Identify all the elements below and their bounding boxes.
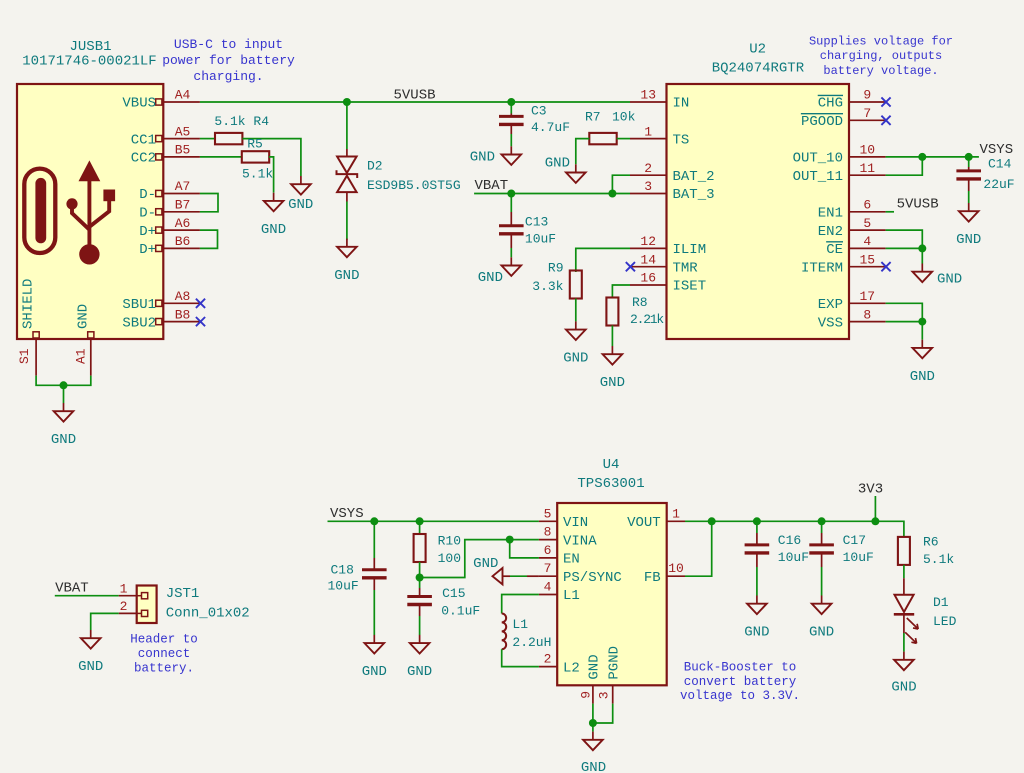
svg-text:4: 4 — [863, 234, 871, 249]
svg-text:VOUT: VOUT — [627, 515, 661, 531]
wire C18 to ground — [373, 578, 375, 590]
svg-text:6: 6 — [544, 543, 552, 558]
pin 11 OUT_11 of U2 — [849, 174, 886, 176]
pin 1 VOUT of U4 — [667, 520, 685, 522]
diode D2 ESD9B5.0ST5G — [346, 149, 348, 157]
pin 5 VIN of U4 — [539, 520, 557, 522]
svg-text:TS: TS — [673, 132, 690, 148]
pin 4 L1 of U4 — [539, 594, 557, 596]
wire D2 to ground — [346, 202, 348, 240]
svg-text:A4: A4 — [175, 88, 191, 103]
svg-text:3.3k: 3.3k — [532, 279, 563, 294]
svg-text:5.1k: 5.1k — [242, 166, 273, 181]
svg-text:GND: GND — [78, 659, 103, 675]
svg-text:PGOOD: PGOOD — [801, 114, 843, 130]
svg-text:D-: D- — [139, 187, 156, 203]
svg-text:CC2: CC2 — [131, 151, 156, 167]
wire C15 to ground — [419, 605, 421, 617]
svg-text:SHIELD: SHIELD — [21, 279, 37, 329]
svg-text:5: 5 — [544, 506, 552, 521]
svg-text:GND: GND — [473, 556, 498, 572]
inductor L1 2.2uH — [502, 614, 507, 650]
svg-text:2.21k: 2.21k — [630, 312, 664, 327]
svg-text:CE: CE — [826, 242, 843, 258]
no-connect CHG — [881, 97, 890, 106]
wire R10 to junction — [419, 562, 421, 578]
svg-text:10uF: 10uF — [778, 550, 809, 565]
ground symbol at JST1 — [90, 630, 92, 638]
pin 2 BAT_2 of U2 — [630, 174, 667, 176]
USB trident icon — [79, 160, 101, 181]
pin 7 PS/SYNC of U4 — [539, 575, 557, 577]
svg-text:ILIM: ILIM — [673, 242, 707, 258]
svg-text:LED: LED — [933, 614, 957, 629]
ground symbol at C14 — [968, 203, 970, 211]
IC U2 body — [667, 84, 850, 339]
wire D1 to ground — [903, 614, 905, 633]
svg-text:L1: L1 — [512, 617, 528, 632]
svg-text:8: 8 — [863, 307, 871, 322]
svg-text:B5: B5 — [175, 143, 191, 158]
pin A6 D+ of JUSB1 — [156, 227, 162, 233]
capacitor C15 0.1uF — [407, 595, 432, 598]
wire C14 to ground — [968, 179, 970, 191]
svg-text:5.1k R4: 5.1k R4 — [214, 114, 269, 129]
svg-text:C14: C14 — [988, 157, 1012, 172]
wire R6 to D1 — [903, 565, 905, 578]
svg-text:B8: B8 — [175, 307, 191, 322]
svg-text:D+: D+ — [139, 242, 156, 258]
wire 5VUSB down to D2 — [346, 102, 348, 149]
svg-text:power for battery: power for battery — [162, 53, 295, 68]
junction 3V3 at C17 — [818, 517, 826, 525]
wire 5VUSB net VBUS to U2 IN — [200, 101, 630, 103]
no-connect SBU2 — [196, 317, 205, 326]
wire 5VUSB down to C3 — [510, 102, 512, 114]
pin 10 FB of U4 — [667, 575, 685, 577]
junction R10/C15/VINA — [416, 574, 424, 582]
junction 5VUSB at D2 — [343, 98, 351, 106]
svg-text:10uF: 10uF — [843, 550, 874, 565]
capacitor C16 10uF — [745, 543, 770, 546]
svg-text:charging, outputs: charging, outputs — [820, 49, 942, 63]
svg-text:GND: GND — [545, 155, 570, 171]
svg-text:GND: GND — [600, 375, 625, 391]
svg-text:14: 14 — [640, 252, 656, 267]
junction 5VUSB at C3 — [507, 98, 515, 106]
wire 3V3 rail from VOUT — [685, 521, 904, 537]
wire ILIM to R9 — [576, 248, 630, 272]
svg-text:TPS63001: TPS63001 — [577, 476, 644, 492]
junction 3V3 at C16 — [753, 517, 761, 525]
svg-text:22uF: 22uF — [983, 177, 1014, 192]
svg-text:B7: B7 — [175, 198, 191, 213]
pin 7 PGOOD of U2 — [849, 119, 886, 121]
junction EN2/CE — [918, 244, 926, 252]
svg-text:9: 9 — [863, 88, 871, 103]
wire ISET to R8 — [612, 285, 630, 298]
resistor R6 5.1k — [898, 537, 910, 565]
wire VBAT net to U2 BAT_3 — [474, 193, 630, 195]
svg-text:Conn_01x02: Conn_01x02 — [166, 606, 250, 622]
wire inductor to L2 pin — [502, 649, 539, 666]
IC U4 body — [557, 503, 667, 685]
svg-text:ITERM: ITERM — [801, 260, 843, 276]
resistor R4 — [215, 133, 242, 144]
ground symbol at R7 — [575, 164, 577, 172]
capacitor C14 22uF — [956, 169, 981, 172]
ground symbol at C15 — [419, 635, 421, 643]
pin A1 GND of JUSB1 — [88, 332, 94, 338]
svg-text:JST1: JST1 — [166, 586, 200, 602]
svg-text:connect: connect — [138, 647, 191, 661]
wire EN2 to CE to ground — [886, 230, 923, 263]
svg-text:0.1uF: 0.1uF — [441, 604, 480, 619]
pin 15 ITERM of U2 — [849, 266, 886, 268]
junction VSYS at C14 — [965, 153, 973, 161]
wire EXP to VSS — [886, 303, 923, 321]
ground symbol at D1 — [903, 652, 905, 660]
svg-text:S1: S1 — [17, 348, 32, 364]
svg-text:PGND: PGND — [606, 646, 622, 680]
pin A8 SBU1 of JUSB1 — [156, 300, 162, 306]
wire CC2 to R5 — [200, 156, 242, 158]
capacitor C17 10uF — [809, 543, 834, 546]
connector JUSB1 body — [17, 84, 163, 339]
wire C17 to ground — [821, 553, 823, 567]
ground symbol at C17 — [821, 596, 823, 604]
wire 3V3 down to C16 — [756, 521, 758, 533]
svg-text:charging.: charging. — [193, 69, 263, 84]
wire VSS stub — [886, 321, 923, 323]
svg-text:5VUSB: 5VUSB — [394, 88, 436, 104]
svg-text:D+: D+ — [139, 224, 156, 240]
junction VSYS at C18 — [370, 517, 378, 525]
wire junction to VINA — [420, 540, 510, 578]
pin 17 EXP of U2 — [849, 302, 886, 304]
svg-text:CC1: CC1 — [131, 132, 156, 148]
svg-text:EXP: EXP — [818, 297, 843, 313]
svg-text:GND: GND — [407, 664, 432, 680]
junction VSYS at OUT_11 branch — [918, 153, 926, 161]
ground symbol at VSS — [921, 340, 923, 348]
svg-text:5VUSB: 5VUSB — [897, 197, 939, 213]
wire CC1 to R4 — [200, 138, 215, 140]
junction VINA/EN — [506, 536, 514, 544]
svg-text:USB-C to input: USB-C to input — [174, 37, 283, 52]
svg-text:R9: R9 — [548, 260, 564, 275]
wire OUT_11 branch — [886, 157, 923, 175]
pin 1 TS of U2 — [630, 138, 667, 140]
svg-text:R7: R7 — [585, 110, 601, 125]
pin 2 L2 of U4 — [539, 666, 557, 668]
svg-text:5: 5 — [863, 216, 871, 231]
junction 3V3 at FB branch — [708, 517, 716, 525]
pin 6 EN of U4 — [539, 557, 557, 559]
svg-text:3: 3 — [597, 691, 612, 699]
pin 14 TMR of U2 — [630, 266, 667, 268]
svg-text:IN: IN — [673, 96, 690, 112]
svg-text:1: 1 — [672, 506, 680, 521]
USB receptacle icon — [24, 169, 55, 253]
svg-text:GND: GND — [563, 351, 588, 367]
svg-text:C3: C3 — [531, 104, 547, 119]
pin 4 CE of U2 — [849, 247, 886, 249]
junction EXP/VSS — [918, 318, 926, 326]
svg-text:2.2uH: 2.2uH — [512, 635, 551, 650]
junction U4 ground — [589, 719, 597, 727]
resistor R8 2.21k — [606, 298, 618, 326]
wire CE stub — [886, 247, 923, 249]
svg-text:GND: GND — [362, 664, 387, 680]
resistor R9 3.3k — [570, 271, 582, 299]
pin B6 D+ of JUSB1 — [156, 245, 162, 251]
svg-text:4.7uF: 4.7uF — [531, 120, 570, 135]
svg-text:GND: GND — [586, 654, 602, 679]
pin 5 EN2 of U2 — [849, 229, 886, 231]
wire C16 to ground — [756, 553, 758, 567]
pin 8 VSS of U2 — [849, 321, 886, 323]
capacitor C3 4.7uF — [499, 115, 524, 118]
svg-text:1: 1 — [644, 124, 652, 139]
pin A5 CC1 of JUSB1 — [156, 136, 162, 142]
svg-text:GND: GND — [937, 272, 962, 288]
ground symbol at R8 — [611, 346, 613, 354]
svg-text:battery voltage.: battery voltage. — [823, 64, 938, 78]
svg-text:VIN: VIN — [563, 515, 588, 531]
svg-text:Header to: Header to — [130, 632, 198, 646]
wire EN branch — [510, 540, 539, 558]
svg-text:R10: R10 — [438, 533, 461, 548]
no-connect PGOOD — [881, 116, 890, 125]
svg-text:7: 7 — [863, 106, 871, 121]
wire VSS to ground — [921, 322, 923, 340]
svg-text:GND: GND — [470, 149, 495, 165]
no-connect SBU1 — [196, 299, 205, 308]
pin 16 ISET of U2 — [630, 284, 667, 286]
svg-text:L2: L2 — [563, 660, 580, 676]
pin B5 CC2 of JUSB1 — [156, 154, 162, 160]
svg-text:13: 13 — [640, 88, 656, 103]
wire C13 to ground — [510, 234, 512, 248]
ground symbol at C13 — [510, 257, 512, 265]
resistor R7 10k — [589, 133, 616, 144]
svg-text:SBU2: SBU2 — [122, 315, 156, 331]
svg-text:3: 3 — [644, 179, 652, 194]
wire EN1 stub — [886, 211, 894, 213]
svg-text:FB: FB — [644, 570, 661, 586]
pin 3 PGND of U4 — [612, 685, 614, 703]
wire R9 to ground — [575, 299, 577, 322]
wire junction down to C15 — [419, 578, 421, 589]
pin 9 GND of U4 — [592, 685, 594, 703]
svg-text:convert battery: convert battery — [684, 675, 797, 689]
connector JST1 body — [137, 586, 157, 624]
svg-text:PS/SYNC: PS/SYNC — [563, 570, 622, 586]
svg-text:VBAT: VBAT — [475, 178, 509, 194]
svg-text:C18: C18 — [331, 562, 354, 577]
svg-text:12: 12 — [640, 234, 656, 249]
svg-text:5.1k: 5.1k — [923, 552, 954, 567]
svg-text:GND: GND — [956, 232, 981, 248]
svg-text:GND: GND — [51, 432, 76, 448]
wire R7 to TS pin — [617, 138, 630, 140]
svg-text:VINA: VINA — [563, 533, 597, 549]
ground symbol below U4 — [592, 732, 594, 740]
junction VSYS at R10 — [416, 517, 424, 525]
svg-text:2: 2 — [644, 161, 652, 176]
svg-text:JUSB1: JUSB1 — [69, 39, 111, 55]
junction VBAT at BAT_2 branch — [608, 190, 616, 198]
svg-text:BAT_3: BAT_3 — [673, 187, 715, 203]
svg-text:EN: EN — [563, 552, 580, 568]
wire U4 GND pins to ground — [592, 704, 594, 723]
svg-text:GND: GND — [744, 625, 769, 641]
capacitor C18 10uF — [362, 568, 387, 571]
wire VSYS down to R10 — [419, 521, 421, 534]
wire R7 to ground — [576, 139, 590, 165]
svg-text:7: 7 — [544, 561, 552, 576]
ground symbol below JUSB1 — [63, 403, 65, 411]
svg-text:GND: GND — [288, 197, 313, 213]
svg-text:GND: GND — [910, 369, 935, 385]
svg-text:2: 2 — [120, 599, 128, 614]
svg-text:ESD9B5.0ST5G: ESD9B5.0ST5G — [367, 178, 461, 193]
pin 12 ILIM of U2 — [630, 247, 667, 249]
svg-text:C13: C13 — [525, 215, 548, 230]
ground symbol at C16 — [756, 596, 758, 604]
wire C14 tap — [968, 157, 970, 167]
capacitor C13 10uF — [499, 224, 524, 227]
pin 10 OUT_10 of U2 — [849, 156, 886, 158]
pin 14 TMR no-connect — [626, 262, 635, 271]
pin 6 EN1 of U2 — [849, 211, 886, 213]
svg-text:voltage to 3.3V.: voltage to 3.3V. — [680, 689, 800, 703]
svg-text:U2: U2 — [749, 42, 766, 58]
wire R8 to ground — [611, 326, 613, 347]
ground symbol at R4 — [300, 176, 302, 184]
wire VBAT to JST1 pin 1 — [55, 595, 119, 597]
svg-text:8: 8 — [544, 525, 552, 540]
wire R5 to ground — [269, 157, 274, 193]
svg-text:SBU1: SBU1 — [122, 297, 156, 313]
no-connect ITERM — [881, 262, 890, 271]
wire junction to ground symbol — [63, 385, 65, 403]
pin 9 CHG of U2 — [849, 101, 886, 103]
svg-text:4: 4 — [544, 580, 552, 595]
svg-text:A5: A5 — [175, 124, 191, 139]
wire VSYS down to C18 — [373, 521, 375, 558]
pin S1 SHIELD of JUSB1 — [33, 332, 39, 338]
LED D1 — [895, 595, 914, 612]
svg-text:B6: B6 — [175, 234, 191, 249]
wire VINA stub — [510, 539, 539, 541]
svg-text:A8: A8 — [175, 289, 191, 304]
svg-text:Buck-Booster to: Buck-Booster to — [684, 661, 797, 675]
svg-text:TMR: TMR — [673, 260, 699, 276]
junction 3V3 at label — [871, 517, 879, 525]
resistor R5 — [242, 151, 269, 162]
pin 2 of JST1 — [119, 612, 137, 614]
svg-text:D2: D2 — [367, 158, 383, 173]
svg-text:11: 11 — [859, 161, 875, 176]
svg-text:VSS: VSS — [818, 315, 843, 331]
svg-text:10uF: 10uF — [328, 579, 359, 594]
pin B8 SBU2 of JUSB1 — [156, 319, 162, 325]
wire D+ pair loopback — [200, 230, 218, 248]
wire L1 pin to inductor — [502, 595, 539, 614]
svg-text:OUT_11: OUT_11 — [793, 169, 843, 185]
ground symbol at R5 — [273, 193, 275, 201]
wire D- pair loopback — [200, 194, 218, 212]
svg-text:10: 10 — [668, 561, 684, 576]
ground symbol at D2 — [346, 239, 348, 247]
svg-text:GND: GND — [334, 268, 359, 284]
wire C3 to ground — [510, 124, 512, 134]
junction VBAT at C13 — [507, 190, 515, 198]
pin 8 VINA of U4 — [539, 539, 557, 541]
svg-text:10171746-00021LF: 10171746-00021LF — [22, 54, 156, 70]
junction shield net — [60, 381, 68, 389]
wire 3V3 down to C17 — [821, 521, 823, 533]
pin A7 D- of JUSB1 — [156, 190, 162, 196]
wire FB branch — [685, 521, 712, 576]
wire VSYS net to U4 VIN — [328, 520, 539, 522]
svg-text:10uF: 10uF — [525, 231, 556, 246]
svg-text:battery.: battery. — [134, 661, 194, 675]
svg-text:R6: R6 — [923, 535, 939, 550]
svg-text:C15: C15 — [442, 586, 465, 601]
svg-text:GND: GND — [478, 270, 503, 286]
svg-text:D-: D- — [139, 206, 156, 222]
pin 1 of JST1 — [119, 595, 137, 597]
svg-text:R8: R8 — [632, 295, 648, 310]
svg-text:GND: GND — [581, 760, 606, 773]
ground symbol at CE — [921, 264, 923, 272]
svg-text:OUT_10: OUT_10 — [793, 151, 843, 167]
svg-text:Supplies voltage for: Supplies voltage for — [809, 35, 953, 49]
svg-text:10k: 10k — [612, 110, 636, 125]
svg-text:C16: C16 — [778, 533, 801, 548]
wire VSYS net from OUT_10 — [886, 156, 979, 158]
resistor R10 100 — [414, 534, 426, 562]
svg-text:BQ24074RGTR: BQ24074RGTR — [712, 61, 805, 77]
ground symbol at R9 — [575, 321, 577, 329]
wire BAT_2 branch — [612, 175, 630, 193]
wire 3V3 label stub — [874, 496, 876, 521]
svg-text:A7: A7 — [175, 179, 191, 194]
svg-text:GND: GND — [809, 625, 834, 641]
svg-text:VSYS: VSYS — [330, 506, 364, 522]
svg-text:R5: R5 — [247, 136, 263, 151]
svg-text:BAT_2: BAT_2 — [673, 169, 715, 185]
svg-text:C17: C17 — [843, 533, 866, 548]
wire shield to ground — [36, 376, 91, 386]
wire R4 to ground — [242, 139, 301, 176]
pin B7 D- of JUSB1 — [156, 209, 162, 215]
wire JST1 pin 2 to ground — [91, 613, 119, 630]
ground symbol at C18 — [373, 635, 375, 643]
svg-text:D1: D1 — [933, 595, 949, 610]
ground hierarchical label at PS/SYNC — [503, 575, 511, 577]
svg-text:GND: GND — [76, 304, 92, 329]
svg-text:GND: GND — [891, 680, 916, 696]
svg-text:ISET: ISET — [673, 279, 707, 295]
svg-text:2: 2 — [544, 652, 552, 667]
svg-text:VBAT: VBAT — [55, 580, 89, 596]
svg-text:VBUS: VBUS — [122, 96, 156, 112]
pin 3 BAT_3 of U2 — [630, 193, 667, 195]
